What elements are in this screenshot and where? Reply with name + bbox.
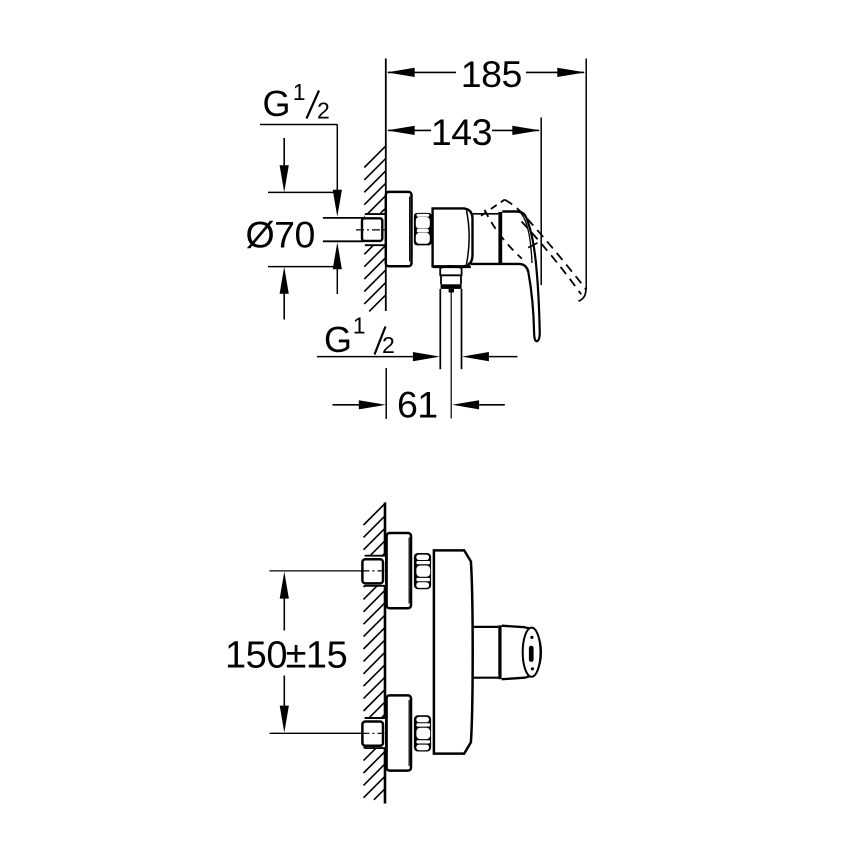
centerline dash-dot of pipe: [356, 229, 385, 231]
svg-text:1: 1: [353, 313, 366, 339]
bottom union centerline / 150 extension line: [270, 732, 363, 734]
svg-text:150: 150: [225, 634, 287, 676]
G 1/2 opposing left arrow: [462, 352, 489, 361]
top escutcheon (bottom figure): [387, 533, 411, 608]
wall hatching (bottom figure): [364, 504, 386, 800]
dashed handle tip hook: [579, 288, 586, 302]
cap bottom edge and neck corner: [471, 264, 529, 273]
dimension 143: [387, 111, 541, 153]
svg-text:185: 185: [461, 53, 522, 95]
mixer body (bottom figure): [434, 550, 473, 753]
handle back thick band: [498, 212, 502, 264]
handle lever (solid, down position): [526, 217, 540, 342]
bottom union hex nut (bottom figure): [414, 715, 431, 751]
valve body block: [433, 208, 473, 266]
dimension diameter 70 arrows: [283, 138, 285, 168]
wall supply pipe (top figure): [323, 217, 364, 219]
top union thread behind wall nut: [365, 556, 385, 586]
top union hex nut (bottom figure): [414, 553, 431, 589]
extension line right of dimension 185: [585, 59, 587, 291]
svg-text:Ø70: Ø70: [246, 213, 315, 255]
wall hatching (top figure): [364, 146, 386, 311]
cartridge collar top line: [473, 213, 498, 215]
dash tick across lever: [528, 243, 537, 248]
handle cap top: [502, 212, 526, 217]
outlet nut band: [440, 275, 442, 284]
label G 1/2 (middle, hose outlet thread): [324, 313, 395, 361]
extension line right of dimension 143: [540, 118, 542, 286]
hose centerline / 61 right extension: [450, 293, 452, 419]
wall face line (top figure): [385, 59, 387, 312]
knob slot: [529, 646, 534, 662]
svg-text:G: G: [324, 319, 352, 360]
knob back thick band: [498, 625, 501, 679]
knob dots: [530, 636, 533, 639]
top union square nut: [362, 559, 383, 583]
bottom union square nut: [362, 722, 383, 746]
arrow down to pipe top edge: [333, 190, 342, 217]
svg-text:143: 143: [431, 111, 492, 153]
handle raised position dashed lines: [481, 200, 505, 216]
thread stub at wall: [365, 214, 386, 245]
svg-text:2: 2: [382, 332, 395, 358]
top union centerline / 150 extension line: [270, 570, 363, 572]
dimension diameter 70 extension lines: [268, 191, 338, 193]
bottom union thread behind wall nut: [365, 718, 385, 748]
dimension 185: [387, 53, 586, 95]
outlet connector: [439, 267, 441, 275]
svg-text:G: G: [263, 83, 291, 124]
knob face ellipse: [523, 628, 541, 677]
handle stem (bottom figure): [472, 626, 499, 628]
shower hose connection lines: [439, 289, 441, 369]
valve body bottom edge: [433, 265, 471, 268]
leader line of G 1/2 top label: [260, 124, 337, 126]
body end inner arc: [467, 211, 470, 265]
label G 1/2 (top, wall union thread): [263, 79, 330, 124]
svg-text:2: 2: [317, 98, 330, 124]
outlet dome under body: [440, 266, 461, 268]
dimension 150 plus/minus 15: [225, 572, 347, 733]
knob cone (handle end-on): [502, 626, 541, 680]
svg-text:1: 1: [293, 79, 306, 105]
escutcheon flange (top figure): [386, 192, 412, 266]
G 1/2 leader with right arrow: [317, 356, 413, 358]
wall face line (bottom figure): [384, 502, 387, 803]
square nut on pipe: [362, 218, 382, 241]
bottom escutcheon (bottom figure): [387, 695, 411, 770]
svg-text:±15: ±15: [286, 634, 348, 676]
arrow up to pipe bottom edge: [333, 242, 342, 269]
dimension 61: [333, 368, 505, 425]
svg-text:61: 61: [397, 383, 438, 425]
union hex nut (top figure): [414, 213, 432, 246]
handle cap inner thin line: [521, 213, 533, 264]
